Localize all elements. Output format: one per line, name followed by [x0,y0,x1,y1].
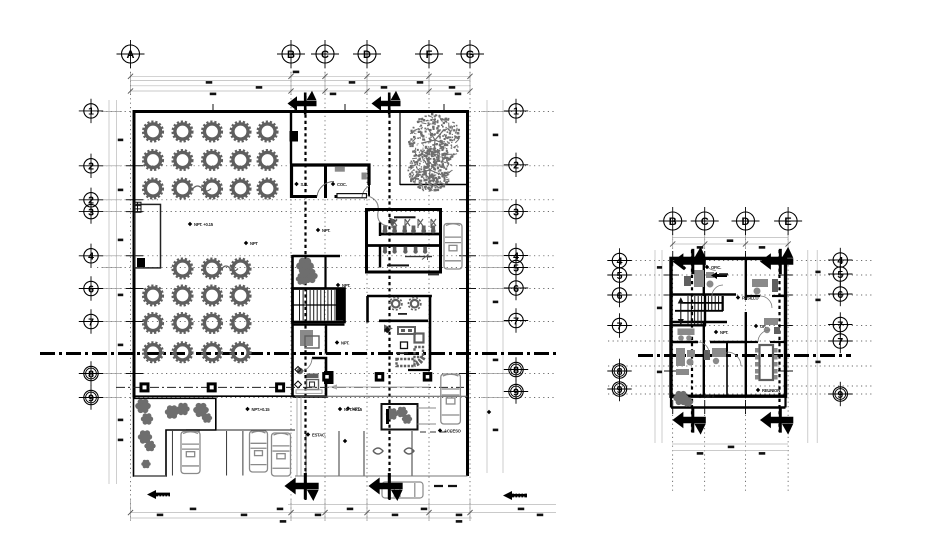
section arrow top 1 [288,91,317,115]
bathroom block outer walls [367,210,441,273]
svg-text:SALA: SALA [704,394,715,399]
parking stall lines [171,431,173,476]
room equipment [335,167,345,172]
wall [290,112,292,164]
svg-text:2: 2 [513,160,519,172]
grid bubble 7 right-plan-right [828,312,852,336]
round table B43 [202,342,222,362]
wall [400,184,468,186]
round table B32 [173,313,193,333]
car parked 2 [250,431,268,472]
label office 1 [705,265,721,270]
wall [133,110,469,113]
label hall 2 [244,241,259,246]
column [275,382,285,392]
wall [746,295,760,297]
svg-text:NPT.: NPT. [720,330,728,335]
bathroom counter bar [394,216,416,218]
svg-text:COC.: COC. [337,182,347,187]
lounge armchair [415,334,424,343]
svg-text:NPT.+0.15: NPT.+0.15 [344,407,363,412]
svg-text:6: 6 [88,283,94,295]
svg-text:5: 5 [513,262,519,274]
round table A25 [258,150,278,170]
horizontal grid lines, left plan [97,111,557,113]
label corridor 3 [335,340,350,345]
wall [703,322,705,396]
corner section arrow [672,247,705,274]
round table A11 [143,122,163,142]
walkway edge lines [296,397,298,476]
section arrow bottom 2 [368,473,402,501]
grid bubble 2 left [79,188,103,212]
round table A35 [258,179,278,199]
wall [671,406,786,409]
label hall [188,222,214,227]
car at drive [441,374,461,424]
wall [291,255,294,397]
office desk top-left [684,270,714,288]
vertical grid lines, right plan [672,230,674,492]
svg-text:NPT.+0.15: NPT.+0.15 [252,407,271,412]
heavy section vertical 1 [691,250,693,432]
grid bubble 6 left [79,276,103,300]
label walk 2 [338,407,363,412]
section arrow top 2 [372,91,401,115]
heavy section vertical 2 [778,250,780,432]
car parked 1 [181,432,200,474]
garland between tables [193,186,211,191]
reception room [293,358,327,397]
wall [366,296,369,323]
porch arrow gray [330,384,337,389]
label parking 2 [343,439,347,443]
wall [726,352,728,396]
room door arcs [317,181,369,198]
round table A15 [258,122,278,142]
round table B12 [202,259,222,279]
grid bubble 9 left [79,385,103,409]
entrance column [375,372,385,382]
wall [770,341,786,343]
svg-text:NPT.: NPT. [341,340,349,345]
svg-text:B: B [287,49,295,61]
grid bubble 1 left [79,99,103,123]
upper plan outer walls [671,258,786,396]
stage platform [135,204,161,268]
reception closet [324,371,334,384]
stair rails [681,302,723,304]
grid bubble 9 right-plan-left [607,377,631,401]
cafe tables [390,298,402,310]
grid bubble 8 right-plan-left [607,359,631,383]
svg-text:B: B [669,216,677,228]
vertical grid lines, left plan [130,63,132,521]
round table A34 [231,179,251,199]
wall [726,342,728,352]
grid bubble C upper plan [691,207,719,235]
round table B33 [202,313,222,333]
svg-text:NPT.: NPT. [342,283,350,288]
motorcycles [373,448,414,454]
shrub [396,407,407,418]
shrub [202,413,212,423]
counter below stairs [678,329,695,341]
lounge sideboard [398,327,415,334]
wall [408,369,430,371]
label hall upper [736,295,760,300]
wall [133,110,136,398]
wall [703,258,705,296]
wall [466,110,469,476]
round table B34 [231,313,251,333]
wall [429,296,432,370]
label meeting [756,388,780,393]
grid bubble 7 right-plan-left [607,313,631,337]
round table B13 [231,259,251,279]
grid bubble 9 right [504,379,528,403]
wall [710,341,746,343]
svg-text:7: 7 [513,315,519,327]
svg-text:D: D [363,49,371,61]
stair direction arrow [679,299,683,325]
wall [704,295,706,327]
grid bubble 6 right [504,276,528,300]
shrub [135,399,151,413]
tree large upper [408,113,460,167]
round table A22 [173,150,193,170]
svg-text:5: 5 [837,269,843,281]
plant room walls [293,256,341,289]
lounge sofa L [397,347,424,366]
svg-text:8: 8 [88,368,94,380]
grid bubble 2 right [504,153,528,177]
shrub [193,403,209,417]
shrub [165,405,179,418]
svg-text:9: 9 [617,384,623,396]
car service bay [444,224,462,270]
label access [438,428,462,433]
entrance gray edge [327,386,429,388]
counter below room2 [337,194,367,198]
large plant [296,258,314,274]
office desk bottom-left [676,348,695,375]
round table A31 [143,179,163,199]
svg-text:8: 8 [513,364,519,376]
grid bubble 5 right-plan-right [828,262,852,286]
dimension lines bottom [288,504,556,506]
grid bubble 1 right [504,99,528,123]
grid bubble 5 right [504,255,528,279]
entrance column [423,372,433,382]
svg-text:6: 6 [837,289,843,301]
small stair left [134,202,141,212]
cafe dash mark [398,313,407,315]
right plan dimension lines [672,237,788,239]
label parking 1 [306,432,326,437]
svg-text:S.H.: S.H. [301,182,308,187]
shrub [386,408,398,419]
round table B42 [173,342,193,362]
office desk top-right [752,279,778,295]
label stairs hall [714,330,729,335]
horizontal grid lines, right plan [608,260,872,262]
parking curb right [295,395,468,397]
wall [367,295,432,298]
dimension lines top [131,75,470,77]
grid bubble B upper plan [659,207,687,235]
grid bubble 9 right-plan-right [828,382,852,406]
round table A24 [231,150,251,170]
round table B44 [231,342,251,362]
svg-text:9: 9 [88,392,94,404]
grid bubble 8 left [79,361,103,385]
label walk 1 [245,407,270,412]
svg-text:3: 3 [513,206,519,218]
corner section arrow [672,407,705,434]
svg-text:9: 9 [837,389,843,401]
svg-text:OF.: OF. [760,324,766,329]
right planter box [382,404,418,430]
bathroom bench line [405,256,432,257]
column [207,382,217,392]
grid bubble 4 right [504,243,528,267]
mark [682,266,686,270]
ingreso arrow upper plan [711,272,728,279]
porch edge line [134,395,295,397]
axis tick stubs on walls, left plan [126,165,143,167]
svg-text:ACCESO: ACCESO [444,428,462,433]
svg-text:NPT: NPT [250,241,258,246]
grid bubble 4 right-plan-left [607,248,631,272]
round table B31 [143,313,163,333]
svg-text:2: 2 [88,161,94,173]
heavy section line x=305.5 [304,96,306,500]
svg-text:1: 1 [513,106,519,118]
svg-text:A: A [127,49,135,61]
wall [722,296,724,311]
shrub [302,269,317,283]
round table B41 [143,342,163,362]
grid bubble 4 right-plan-right [828,248,852,272]
column axis dash-dot [116,386,464,388]
lounge entry arrow [384,325,393,333]
label room 2 [331,182,347,187]
grid bubble 6 right-plan-left [607,283,631,307]
desk mid-right [764,318,780,334]
wall [671,341,698,343]
svg-text:OFIC.: OFIC. [711,265,721,270]
round table B24 [231,286,251,306]
lounge coffee table [401,342,408,349]
door arcs upper plan [698,258,772,366]
shrub [683,397,693,407]
column [140,382,150,392]
shrub [141,460,150,469]
wall [671,293,736,296]
label corridor 1 [316,228,331,233]
round table B11 [173,259,193,279]
dimension lines left [108,100,110,484]
round table A12 [173,122,193,142]
grid bubble 8 right [504,357,528,381]
svg-text:NPT.: NPT. [322,228,330,233]
heavy section line x=389.5 [388,96,390,500]
grid bubble F [415,40,443,68]
wall [671,321,727,323]
street arrow left [147,490,170,499]
wall [772,295,786,297]
svg-text:4: 4 [88,251,94,263]
round table A13 [202,122,222,142]
machine room [293,325,345,354]
svg-text:9: 9 [513,386,519,398]
svg-text:1: 1 [88,106,94,118]
street arrow right [503,491,527,500]
wall [399,112,401,186]
conference table [755,345,778,380]
car parked 3 [272,433,291,476]
label room lower [698,394,715,399]
shrub [402,414,412,424]
grid bubble A [117,40,145,68]
bathroom stall dividers [392,219,436,228]
bathroom fixtures lower row [383,247,387,254]
svg-text:D: D [742,216,750,228]
bathroom door flag [389,218,398,226]
bathroom corner label [428,274,439,276]
svg-text:E: E [784,216,791,228]
svg-text:6: 6 [513,283,519,295]
mark [487,410,491,414]
svg-text:3: 3 [88,206,94,218]
shrub [296,273,308,284]
grid bubble 2 left [79,154,103,178]
label porch [346,406,361,411]
grid bubble G [456,40,484,68]
shrub [144,441,155,452]
room block outline [292,165,370,198]
grid bubble 4 left [79,244,103,268]
hall east wall pier [290,131,299,142]
grid bubble C [311,40,339,68]
wall [379,319,428,322]
svg-text:7: 7 [88,316,94,328]
svg-text:ESTAC.: ESTAC. [312,432,326,437]
shrub [141,413,153,424]
round table B22 [173,286,193,306]
porch wall right [784,396,786,407]
drive aisle dashes [420,431,452,433]
svg-text:C: C [701,216,709,228]
round table A33 [202,179,222,199]
porch wall left [670,396,672,407]
svg-text:C: C [321,49,329,61]
round table A23 [202,150,222,170]
grid bubble 6 right-plan-right [828,282,852,306]
lounge label dash [396,352,408,354]
upper stairs flight 1 [688,296,722,311]
upper stairs flight 2 [688,311,705,325]
corridor S-curve [368,196,388,226]
grid bubble D [353,40,381,68]
dimension lines right [486,100,488,473]
round table A14 [231,122,251,142]
svg-text:5: 5 [617,270,623,282]
svg-text:NPT. +0.15: NPT. +0.15 [194,222,214,227]
grid bubble 5 right-plan-left [607,263,631,287]
svg-text:6: 6 [617,290,623,302]
tree large lower [408,148,453,192]
grid bubble D upper plan [732,207,760,235]
bathroom bottom bar [387,264,409,266]
grid bubble 3 left [79,199,103,223]
planter box [134,398,216,476]
dimension text marks [293,71,300,74]
label room 1 [294,182,308,187]
round table B23 [202,286,222,306]
svg-text:REUNION: REUNION [762,388,780,393]
corner section arrow [760,247,793,274]
section arrow bottom 1 [284,473,318,501]
bathroom toilets upper row [383,226,388,234]
grid bubble E upper plan [774,207,802,235]
label office 3 [754,324,766,329]
car bottom [382,482,423,498]
wall [746,341,758,343]
svg-text:8: 8 [617,366,623,378]
staircase [293,289,345,323]
heavy centerline right plan [638,354,851,357]
round table A32 [173,179,193,199]
round table A21 [143,150,163,170]
svg-text:7: 7 [617,320,623,332]
grid bubble 7 right-plan-right [828,329,852,353]
grid bubble 3 right [504,199,528,223]
round table B21 [143,286,163,306]
svg-text:7: 7 [837,336,843,348]
entrance column [322,372,332,382]
shrub [138,430,152,443]
grid bubble 7 right [504,308,528,332]
wall [745,312,747,396]
axis tick stubs on walls, right plan [664,274,679,276]
label corridor 2 [336,283,351,288]
wall [745,258,747,300]
grid bubble B [277,40,305,68]
wall [671,324,706,326]
reception diamonds [295,367,302,389]
shrub [176,403,189,415]
desk center-bottom [704,348,726,364]
grid bubble 7 left [79,309,103,333]
svg-text:PASILLO: PASILLO [742,295,759,300]
heavy centerline y=353.5 [40,352,558,355]
svg-text:G: G [466,49,475,61]
corner section arrow [760,407,793,434]
plant upper plan [673,391,688,405]
road dash right of car [434,485,462,487]
svg-text:F: F [426,49,433,61]
